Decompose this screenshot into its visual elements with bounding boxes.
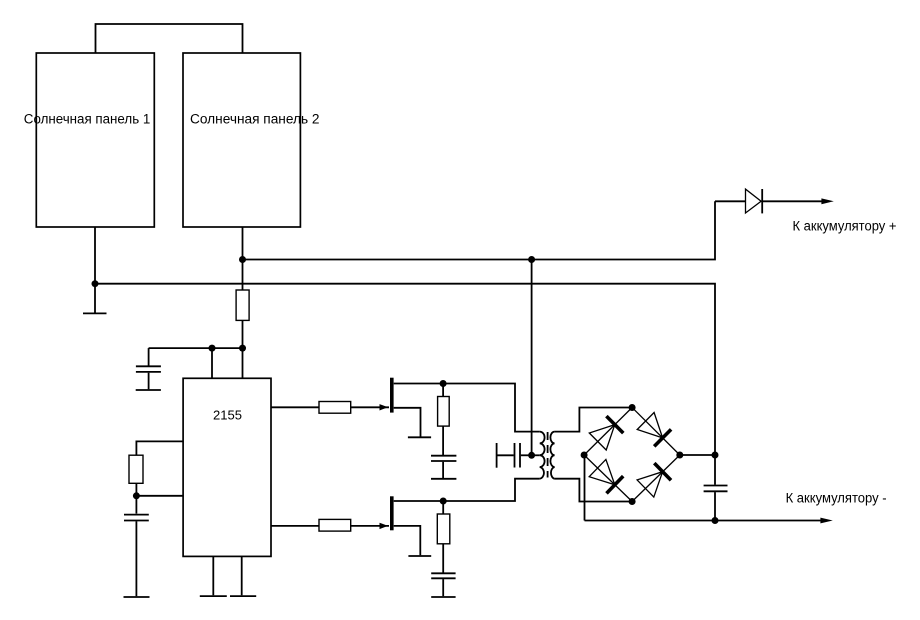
transistor Q1: [390, 378, 443, 437]
arrow into Q2 gate: [380, 523, 389, 529]
transistor Q2: [390, 496, 443, 555]
solar panel 1 box: [36, 53, 154, 227]
wire VD1 to arrow: [762, 200, 822, 202]
resistor R1 below panel 2: [236, 290, 249, 320]
diode VD2 bridge left-top: [589, 416, 623, 450]
wire Q1 drain to transformer: [443, 384, 540, 432]
resistor R5 gate resistor lower: [319, 519, 351, 531]
transformer T1 primary winding: [540, 432, 545, 479]
diode VD3 bridge top-right: [637, 413, 671, 447]
svg-text:Солнечная панель 2: Солнечная панель 2: [190, 112, 320, 128]
wire tap node to winding: [532, 454, 540, 456]
wire upper bus corner to diode VD1: [715, 200, 746, 202]
node Q2 drain / R6: [440, 498, 447, 505]
wire secondary top to bridge top node: [555, 408, 633, 432]
wire bridge left node down to minus bus: [584, 455, 586, 521]
capacitor C6: [704, 486, 728, 492]
capacitor C2: [124, 515, 150, 597]
node bridge left: [581, 452, 588, 459]
wire R1 to IC top: [242, 320, 244, 378]
wire below panel 1 down to ground: [94, 227, 96, 313]
wire IC top horizontal: [149, 347, 243, 349]
solar panel 2 box: [183, 53, 300, 227]
node above IC right: [239, 345, 246, 352]
capacitor C4: [431, 573, 455, 597]
node above IC left: [209, 345, 216, 352]
node bridge bottom: [629, 498, 636, 505]
wire node to R6: [442, 501, 444, 514]
wire R4 to C3: [442, 426, 444, 455]
wire U1 right pin upper to R3: [271, 406, 319, 408]
diode VD5 bridge bottom-right: [637, 463, 671, 497]
ground under Q2 source: [408, 555, 431, 557]
wire R3 to Q1 gate: [351, 406, 389, 408]
svg-text:К аккумулятору +: К аккумулятору +: [793, 219, 897, 235]
node transformer tap: [528, 452, 535, 459]
node at panel 1 wire / lower bus: [92, 280, 99, 287]
wire R2 bottom to node: [135, 483, 137, 513]
wire U1 left pin 1: [136, 441, 183, 455]
resistor R2: [129, 455, 143, 483]
node Q1 drain / R4: [440, 380, 447, 387]
transformer T1 core: [547, 432, 549, 478]
resistor R6: [437, 514, 450, 544]
wire secondary bottom to bridge bottom node: [555, 479, 633, 502]
svg-text:К аккумулятору -: К аккумулятору -: [786, 490, 887, 506]
wire bridge right node to cap column: [680, 454, 715, 456]
wire top connecting panels: [96, 24, 243, 53]
wire C6 bottom lead: [714, 492, 716, 520]
wire minus bus to arrow: [585, 520, 821, 522]
capacitor C1: [136, 366, 161, 390]
wire corner down to capacitor C1: [148, 348, 150, 365]
diode VD1: [746, 189, 763, 213]
node on minus bus: [712, 517, 719, 524]
wire lower bus (panel1 node to right corner, down to bridge): [95, 284, 715, 455]
wire Q2 drain to transformer: [443, 479, 540, 501]
svg-text:2155: 2155: [213, 408, 242, 423]
diode VD4 bridge left-bottom: [589, 459, 623, 493]
ground bar under U1 stub 2: [230, 595, 256, 597]
resistor R3 gate resistor upper: [319, 402, 351, 414]
wire U1 bottom stub 1: [212, 556, 214, 595]
wire U1 bottom stub 2: [241, 556, 243, 595]
wire transformer tap drop line: [531, 260, 533, 456]
op-amp U1 IC 2155 box: [183, 378, 271, 556]
ground bar under U1 stub 1: [200, 595, 227, 597]
wire C6 top lead: [714, 455, 716, 485]
ground under panel 1: [83, 312, 107, 314]
capacitor C3: [431, 456, 456, 479]
arrow to battery plus: [821, 198, 833, 204]
bridge edge wires: [584, 408, 680, 502]
svg-text:Солнечная панель 1: Солнечная панель 1: [24, 112, 151, 128]
wire U1 left pin 2: [136, 495, 183, 497]
node at panel 2 wire / upper bus: [239, 256, 246, 263]
capacitor C5 at transformer tap: [497, 443, 532, 468]
arrow into Q1 gate: [380, 404, 389, 410]
wire R6 to C4: [442, 544, 444, 573]
node bridge right: [676, 452, 683, 459]
wire upper bus (panel2 node to right corner, up to diode): [243, 201, 716, 259]
node bridge top: [629, 404, 636, 411]
node cap C6 top: [712, 452, 719, 459]
transformer T1 secondary winding: [550, 432, 554, 479]
ground under Q1 source: [408, 436, 431, 438]
wire node to R4: [442, 384, 444, 397]
node on upper bus at transformer tap line: [528, 256, 535, 263]
wire below panel 2 to resistor R1: [242, 227, 244, 290]
wire U1 right pin lower to R5: [271, 525, 319, 527]
wire R5 to Q2 gate: [351, 525, 389, 527]
resistor R4: [438, 397, 450, 427]
arrow to battery minus: [820, 518, 832, 524]
node R2 bottom: [133, 492, 140, 499]
wire stub node to IC top: [211, 348, 213, 378]
